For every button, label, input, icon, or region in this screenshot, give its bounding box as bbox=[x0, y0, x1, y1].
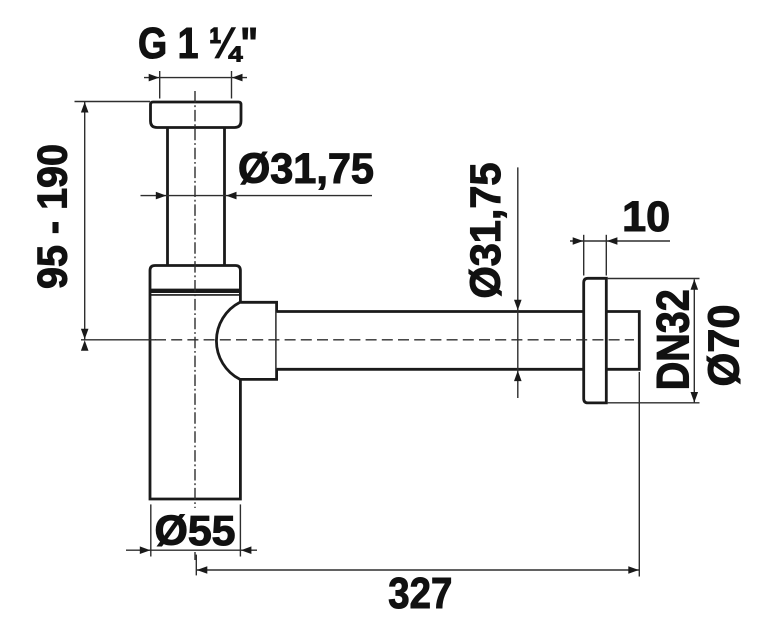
svg-text:10: 10 bbox=[622, 193, 670, 241]
horizontal centerline bbox=[155, 339, 634, 341]
wall rosette flange bbox=[584, 278, 607, 403]
dim D31.75 inlet: right arrow bbox=[226, 192, 237, 200]
svg-text:Ø70: Ø70 bbox=[700, 305, 749, 387]
dim D31.75 outlet: bottom arrow bbox=[514, 371, 522, 382]
dim D55: extension lines bbox=[150, 504, 152, 556]
dim G: extension lines bbox=[159, 71, 161, 99]
dim D31.75 inlet: left arrow bbox=[156, 192, 167, 200]
dim G: left arrow bbox=[149, 74, 160, 82]
dim D70: top arrow bbox=[691, 279, 699, 290]
dim 327: right arrow bbox=[628, 566, 639, 574]
compression ring band bbox=[150, 289, 240, 293]
cap nut (G 1 1/4 connection) bbox=[151, 102, 242, 128]
dim 10: dimension line bbox=[570, 240, 670, 242]
dim 327: dimension line bbox=[196, 569, 639, 571]
inlet pipe (tailpiece) bbox=[166, 128, 169, 266]
dim D31.75 outlet: dimension line bbox=[517, 167, 519, 398]
horizontal outlet pipe with wall stub bbox=[277, 312, 640, 370]
dim D70: dimension line bbox=[693, 279, 695, 402]
collar bottom edge line bbox=[150, 294, 240, 296]
outlet elbow bbox=[216, 302, 276, 379]
trap body (bottle) bbox=[150, 266, 240, 500]
dim 10: extension lines bbox=[583, 235, 585, 276]
dim 10: right arrow bbox=[607, 237, 618, 245]
dim 327: left arrow bbox=[197, 566, 208, 574]
svg-text:G 1 ¼": G 1 ¼" bbox=[138, 19, 258, 68]
dim D31.75 outlet: top arrow bbox=[514, 300, 522, 311]
vertical centerline bbox=[194, 91, 196, 508]
dim D31.75 inlet: dimension line bbox=[141, 195, 373, 197]
vertical centerline lower stub bbox=[194, 552, 196, 560]
dim 95-190: extension line top bbox=[75, 101, 151, 103]
svg-text:Ø31,75: Ø31,75 bbox=[462, 163, 510, 299]
dim D55: dimension line bbox=[126, 549, 257, 551]
dim 10: left arrow bbox=[573, 237, 584, 245]
svg-text:Ø55: Ø55 bbox=[155, 507, 236, 554]
dim 95-190: bottom arrow pair bbox=[81, 329, 89, 340]
dim D70: extension lines bbox=[607, 278, 700, 280]
dim 327: extension line right bbox=[638, 372, 640, 577]
dim 327: extension line left bbox=[195, 555, 197, 576]
dim D70: bottom arrow bbox=[691, 392, 699, 403]
svg-text:327: 327 bbox=[388, 569, 452, 618]
dim G: right arrow bbox=[232, 74, 243, 82]
svg-text:95 - 190: 95 - 190 bbox=[29, 144, 76, 289]
dim 95-190: dimension line bbox=[84, 102, 86, 340]
dim D55: right arrow bbox=[241, 546, 252, 554]
dim D55: left arrow bbox=[140, 546, 151, 554]
svg-text:DN32: DN32 bbox=[648, 289, 699, 390]
dim G: dimension line bbox=[144, 77, 247, 79]
dim 95-190: extension line bottom bbox=[81, 339, 156, 341]
svg-text:Ø31,75: Ø31,75 bbox=[238, 145, 374, 193]
dim 95-190: top arrow bbox=[81, 102, 89, 113]
